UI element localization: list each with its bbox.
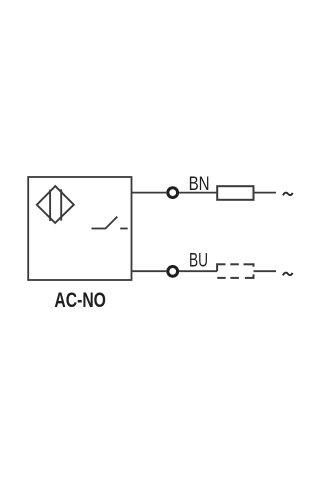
- wire terminal to load resistor: [179, 192, 217, 194]
- AC source tilde (top): [283, 193, 293, 196]
- wire load to AC source: [254, 270, 277, 272]
- load (dashed rectangle): [217, 263, 253, 279]
- svg-text:BN: BN: [189, 173, 210, 195]
- NO switch contact S1: [92, 217, 128, 229]
- proximity sensor symbol (diamond): [37, 186, 74, 223]
- svg-text:AC-NO: AC-NO: [54, 288, 106, 312]
- terminal circle BU: [168, 267, 178, 277]
- AC source tilde (bottom): [283, 273, 293, 276]
- sensor body box U1: [28, 177, 131, 280]
- wire terminal to load (dashed): [179, 270, 217, 272]
- load resistor (solid): [217, 186, 253, 200]
- wire BN from box to terminal: [132, 192, 167, 194]
- svg-text:BU: BU: [189, 249, 208, 271]
- wire resistor to AC source: [254, 192, 277, 194]
- wire BU from box to terminal: [132, 270, 167, 272]
- terminal circle BN: [168, 188, 178, 198]
